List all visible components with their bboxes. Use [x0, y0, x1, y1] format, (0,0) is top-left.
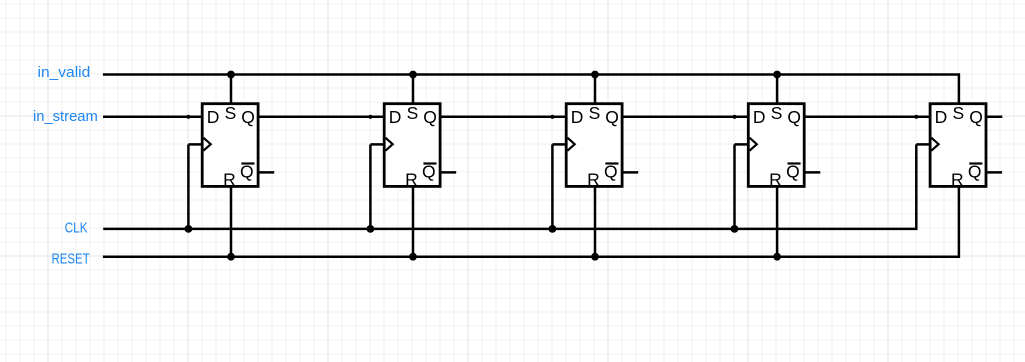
svg-text:Q: Q [240, 162, 254, 182]
junction RESET / U2 R [409, 253, 417, 261]
node on data wire before U5 [914, 115, 918, 119]
svg-text:R: R [587, 169, 600, 189]
junction CLK / U4 clock [731, 225, 739, 233]
wire U3 clock stub [552, 143, 566, 146]
wire U1 clock vertical down to CLK [187, 144, 190, 229]
wire in_stream to U1 D input [103, 116, 202, 119]
svg-text:Q: Q [969, 107, 983, 127]
svg-text:R: R [405, 169, 418, 189]
wire U1 clock stub [188, 143, 202, 146]
junction in_valid / U4 S [773, 71, 781, 79]
junction RESET / U3 R [591, 253, 599, 261]
D flip-flop U5 [930, 103, 986, 189]
D flip-flop U1 [202, 103, 258, 189]
wire U5 Qbar output stub [986, 171, 1002, 174]
svg-text:Q: Q [605, 107, 619, 127]
wire U4 Qbar output stub [804, 171, 820, 174]
D flip-flop U2 [384, 103, 440, 189]
wire U2 S pin from in_valid [412, 75, 415, 104]
svg-text:D: D [207, 107, 220, 127]
svg-text:RESET: RESET [52, 251, 90, 268]
wire U4 clock stub [735, 143, 749, 146]
junction RESET / U1 R [227, 253, 235, 261]
svg-text:Q: Q [422, 162, 436, 182]
wire RESET bus: horizontal run then corner up into U5 R pin [103, 186, 959, 256]
wire U2 clock vertical down to CLK [369, 144, 372, 229]
D flip-flop U4 [748, 103, 804, 189]
svg-text:D: D [571, 107, 584, 127]
svg-text:S: S [407, 103, 419, 123]
wire U4 R pin down to RESET [776, 186, 779, 256]
wire U4 Q output to U5 D input [804, 116, 930, 119]
wire U1 Qbar output stub [258, 171, 274, 174]
junction CLK / U1 clock [185, 225, 193, 233]
node on data wire before U4 [732, 115, 736, 119]
svg-text:CLK: CLK [65, 220, 88, 237]
svg-text:S: S [771, 103, 783, 123]
svg-text:D: D [389, 107, 402, 127]
wire U3 Q output to U4 D input [622, 116, 748, 119]
D flip-flop U3 [566, 103, 622, 189]
svg-text:D: D [753, 107, 766, 127]
wire U3 S pin from in_valid [594, 75, 597, 104]
svg-text:in_valid: in_valid [38, 64, 91, 81]
svg-text:Q: Q [241, 107, 255, 127]
wire U1 Q output to U2 D input [258, 116, 384, 119]
junction in_valid / U3 S [591, 71, 599, 79]
wire U5 Q output stub [986, 116, 1002, 119]
svg-text:R: R [223, 169, 236, 189]
wire in_valid bus: horizontal run then corner down into U5 S pin [103, 75, 959, 104]
wire U3 clock vertical down to CLK [551, 144, 554, 229]
node on data wire before U2 [368, 115, 372, 119]
svg-text:S: S [953, 103, 965, 123]
node on data wire before U3 [550, 115, 554, 119]
svg-text:S: S [225, 103, 237, 123]
wire U2 clock stub [370, 143, 384, 146]
junction in_valid / U1 S [227, 71, 235, 79]
wire U5 clock stub [916, 143, 930, 146]
junction in_valid / U2 S [409, 71, 417, 79]
svg-text:Q: Q [787, 107, 801, 127]
junction RESET / U4 R [773, 253, 781, 261]
svg-text:Q: Q [423, 107, 437, 127]
wire U2 Q output to U3 D input [440, 116, 566, 119]
svg-text:Q: Q [604, 162, 618, 182]
svg-text:R: R [951, 169, 964, 189]
svg-text:Q: Q [968, 162, 982, 182]
wire U2 Qbar output stub [440, 171, 456, 174]
wire U4 S pin from in_valid [776, 75, 779, 104]
svg-text:D: D [935, 107, 948, 127]
wire U1 S pin from in_valid [230, 75, 233, 104]
junction CLK / U3 clock [549, 225, 557, 233]
svg-text:Q: Q [786, 162, 800, 182]
wire U2 R pin down to RESET [412, 186, 415, 256]
wire U4 clock vertical down to CLK [733, 144, 736, 229]
wire U1 R pin down to RESET [230, 186, 233, 256]
svg-text:S: S [589, 103, 601, 123]
node on data wire before U1 [186, 115, 190, 119]
svg-text:in_stream: in_stream [33, 108, 98, 125]
wire U3 R pin down to RESET [594, 186, 597, 256]
svg-text:R: R [769, 169, 782, 189]
junction CLK / U2 clock [367, 225, 375, 233]
wire U3 Qbar output stub [622, 171, 638, 174]
wire CLK bus: horizontal run then corner up into U5 clock stub [103, 144, 916, 229]
